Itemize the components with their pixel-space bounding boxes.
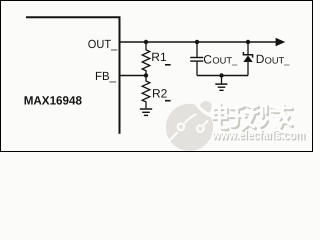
label R2_: [152, 87, 171, 101]
svg-text:FB_: FB_: [95, 69, 116, 83]
svg-text:OUT_: OUT_: [265, 55, 291, 65]
ground R2: [140, 109, 152, 115]
svg-text:R2: R2: [152, 87, 168, 101]
IC U1 MAX16948 outline: [26, 17, 120, 134]
zener diode DOUT_: [243, 42, 252, 76]
node junction dot FB/R1/R2: [144, 73, 148, 77]
node junction dot ground: [219, 73, 223, 77]
node junction dot OUT/DOUT: [246, 40, 250, 44]
svg-text:OUT_: OUT_: [88, 37, 118, 51]
output arrow: [276, 38, 286, 46]
watermark logo disc: [166, 101, 214, 151]
wire OUT rail: [121, 41, 277, 43]
ground COUT/DOUT: [215, 76, 227, 91]
label COUT_: [203, 52, 238, 66]
wire bottom rail: [197, 75, 248, 77]
wire FB: [121, 75, 147, 77]
svg-text:D: D: [256, 52, 265, 66]
label R1_: [151, 50, 170, 65]
svg-text:MAX16948: MAX16948: [24, 93, 83, 107]
resistor R2: [142, 76, 150, 109]
svg-text:www.elecfans.com: www.elecfans.com: [211, 128, 305, 142]
node junction dot OUT/COUT: [195, 40, 199, 44]
capacitor COUT_: [190, 42, 203, 76]
svg-text:OUT_: OUT_: [212, 56, 238, 66]
label DOUT_: [256, 52, 291, 66]
node junction dot OUT/R1: [144, 40, 148, 44]
watermark chinese text 电子发烧友: [213, 104, 293, 134]
watermark url www.elecfans.com: [211, 128, 306, 143]
image border frame: [1, 1, 313, 152]
svg-text:C: C: [203, 52, 212, 66]
svg-text:R1: R1: [151, 50, 167, 64]
resistor R1: [142, 42, 150, 76]
